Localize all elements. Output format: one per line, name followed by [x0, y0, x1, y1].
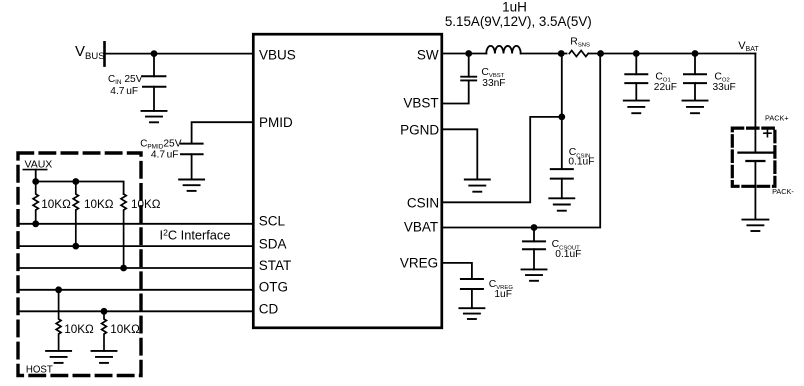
wire CVBST to VBST pin — [442, 80, 469, 103]
resistor R4 10K pulldown OTG — [56, 290, 61, 351]
junction R2/SDA — [72, 243, 79, 250]
wire CIN to ground — [153, 87, 155, 111]
resistor R3 10K pullup STAT — [121, 194, 126, 268]
svg-text:0.1uF: 0.1uF — [555, 249, 581, 260]
svg-text:HOST: HOST — [26, 365, 53, 376]
svg-text:4.7uF: 4.7uF — [151, 150, 179, 161]
wire VAUX stem — [35, 170, 37, 182]
ground CO2 — [683, 101, 708, 114]
junction L1/RSNS/CSIN — [558, 50, 565, 57]
wire CO2 to ground — [694, 83, 696, 101]
wire CPMID to ground — [191, 154, 193, 179]
wire CO1 to ground — [635, 83, 637, 101]
battery plus mark — [764, 130, 771, 137]
svg-text:CIN 25V: CIN 25V — [108, 74, 143, 86]
capacitor CVREG — [461, 279, 483, 289]
resistor R5 10K pulldown CD — [102, 311, 107, 351]
svg-text:0.1uF: 0.1uF — [568, 156, 594, 167]
wire CVBST top stem — [468, 54, 470, 77]
svg-text:10KΩ: 10KΩ — [131, 198, 161, 211]
HOST dashed enclosure — [18, 153, 141, 376]
svg-text:10KΩ: 10KΩ — [110, 323, 140, 336]
junction VBAT/CCSOUT — [531, 224, 538, 231]
svg-text:VAUX: VAUX — [25, 159, 53, 171]
wire battery to ground — [754, 161, 756, 220]
ground battery — [742, 220, 768, 231]
VBUS input terminal bar — [103, 42, 106, 65]
wire CCSOUT to ground — [533, 249, 535, 269]
IC U1 battery charger — [253, 34, 441, 328]
ground CVREG — [459, 308, 484, 319]
wire VBAT pin to riser — [442, 54, 600, 228]
wire PGND to ground — [442, 129, 478, 179]
wire SCL — [19, 223, 254, 225]
svg-text:10KΩ: 10KΩ — [84, 198, 114, 211]
capacitor CVBST — [461, 77, 476, 81]
wire VREG to CVREG — [442, 263, 472, 279]
svg-text:1uF: 1uF — [494, 289, 512, 300]
wire SW to inductor — [442, 53, 487, 55]
capacitor CCSOUT — [523, 241, 545, 249]
svg-text:5.15A(9V,12V), 3.5A(5V): 5.15A(9V,12V), 3.5A(5V) — [445, 14, 592, 29]
svg-text:33nF: 33nF — [482, 78, 505, 89]
junction VAUX/R1 — [32, 178, 39, 185]
svg-text:10KΩ: 10KΩ — [41, 198, 71, 211]
junction RSNS/VBAT riser — [597, 50, 604, 57]
wire CSIN branch riser — [561, 54, 563, 117]
svg-text:33uF: 33uF — [713, 82, 736, 93]
capacitor CCSIN — [551, 169, 573, 179]
junction CIN/VBUS — [151, 50, 158, 57]
resistor R1 10K pullup SCL — [33, 182, 38, 224]
junction VAUX/R2 — [72, 178, 79, 185]
capacitor CIN — [143, 76, 165, 86]
svg-text:I2C Interface: I2C Interface — [160, 227, 231, 242]
wire VBAT riser to battery — [754, 54, 756, 153]
junction R1/SCL — [32, 220, 39, 227]
battery pack dashed enclosure — [732, 128, 775, 186]
svg-text:OTG: OTG — [259, 280, 288, 295]
svg-text:4.7uF: 4.7uF — [110, 86, 138, 97]
wire OTG — [19, 289, 254, 291]
svg-text:STAT: STAT — [259, 258, 292, 273]
junction CO2 — [692, 50, 699, 57]
svg-text:VBUS: VBUS — [259, 48, 296, 63]
wire SDA — [19, 245, 254, 247]
svg-text:PACK-: PACK- — [772, 187, 794, 196]
svg-text:1uH: 1uH — [502, 0, 527, 15]
ground PGND — [465, 180, 490, 192]
junction SW/CVBST — [465, 50, 472, 57]
svg-text:VBST: VBST — [403, 95, 438, 110]
junction CD/R5 — [101, 308, 108, 315]
junction R3/STAT — [120, 265, 127, 272]
wire PMID to CPMID — [192, 122, 254, 143]
ground CIN — [142, 111, 167, 122]
resistor R2 10K pullup SDA — [73, 182, 78, 247]
wire CCSIN to ground — [561, 179, 563, 199]
wire VBUS terminal to IC — [105, 53, 254, 55]
inductor L1 — [486, 46, 520, 54]
svg-text:CD: CD — [259, 302, 279, 317]
junction CO1 — [633, 50, 640, 57]
wire CO1 stem — [635, 54, 637, 75]
ground CCSOUT — [522, 269, 547, 280]
ground R5 — [92, 351, 117, 363]
junction CSIN branch — [558, 114, 565, 121]
wire inductor to RSNS — [521, 53, 567, 55]
wire CO2 stem — [694, 54, 696, 75]
capacitor CPMID — [181, 144, 203, 155]
svg-text:SDA: SDA — [259, 236, 287, 251]
wire VAUX rail — [36, 182, 124, 195]
resistor RSNS — [569, 51, 588, 57]
wire STAT — [19, 267, 254, 269]
wire CCSIN stem — [561, 117, 563, 169]
VAUX terminal underline — [23, 169, 46, 171]
svg-text:SW: SW — [417, 47, 439, 62]
svg-text:CSIN: CSIN — [407, 196, 439, 211]
wire CVREG to ground — [471, 289, 473, 308]
wire CD — [19, 310, 254, 312]
svg-text:10KΩ: 10KΩ — [64, 323, 94, 336]
svg-text:22uF: 22uF — [654, 82, 677, 93]
svg-text:PGND: PGND — [400, 123, 439, 138]
ground R4 — [46, 351, 71, 363]
wire RSNS to VBAT corner — [589, 53, 756, 55]
wire CCSOUT stem — [533, 228, 535, 242]
wire CIN stem — [153, 54, 155, 77]
ground CPMID — [179, 180, 204, 191]
junction OTG/R4 — [55, 286, 62, 293]
wire CSIN pin path — [442, 117, 562, 202]
capacitor CO1 — [625, 74, 647, 83]
ground CCSIN — [549, 198, 574, 210]
svg-text:PACK+: PACK+ — [765, 114, 789, 123]
battery cell BT1 — [738, 153, 772, 161]
svg-text:SCL: SCL — [259, 213, 286, 228]
svg-text:PMID: PMID — [259, 115, 293, 130]
capacitor CO2 — [684, 74, 706, 83]
ground CO1 — [624, 101, 649, 114]
svg-text:VREG: VREG — [400, 256, 438, 271]
svg-text:VBAT: VBAT — [404, 220, 438, 235]
